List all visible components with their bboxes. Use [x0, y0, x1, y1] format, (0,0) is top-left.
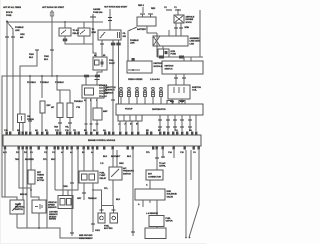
svg-text:PUMP: PUMP	[100, 175, 106, 177]
wire x57 down	[57, 76, 70, 90]
svg-text:FUEL: FUEL	[100, 173, 106, 175]
svg-text:TIMING: TIMING	[37, 175, 44, 177]
svg-text:CONNECTOR: CONNECTOR	[148, 176, 161, 178]
wire B1 drop	[65, 36, 93, 44]
svg-text:BRN: BRN	[185, 27, 190, 29]
wire R1 lower	[59, 118, 61, 132]
wire relay to injectors	[93, 190, 102, 206]
svg-text:BATTERY: BATTERY	[137, 28, 147, 31]
wire box pins	[19, 123, 21, 136]
svg-text:BLK: BLK	[29, 57, 34, 59]
svg-text:C5 = J-K: C5 = J-K	[99, 96, 107, 98]
svg-text:ORN: ORN	[63, 186, 68, 188]
fuse block	[158, 49, 169, 57]
fuse symbol	[51, 10, 53, 22]
wire knock drop	[16, 214, 18, 228]
svg-text:PNK/: PNK/	[29, 54, 34, 56]
wire ecm d1	[19, 150, 31, 188]
wire battery feed	[142, 7, 144, 13]
svg-text:ECM: ECM	[171, 51, 176, 53]
svg-text:PNK/BLK: PNK/BLK	[55, 82, 64, 84]
svg-text:LINK: LINK	[15, 30, 20, 32]
wire module pin a	[159, 115, 161, 131]
svg-text:VALVE: VALVE	[167, 195, 174, 198]
ALDL connector	[153, 36, 188, 46]
ECM engine control module	[3, 135, 201, 146]
tbi feed tab a	[84, 75, 89, 78]
wire tbi pin a	[85, 98, 87, 131]
wire x42 down	[41, 76, 43, 98]
ECM pin tabs bottom	[4, 146, 200, 149]
wire 4pin d	[137, 121, 139, 131]
svg-text:FUEL: FUEL	[109, 60, 115, 62]
wire coil feed a	[175, 74, 177, 85]
wire aldl down	[162, 46, 164, 49]
wire relay feed a	[83, 150, 85, 171]
svg-text:PRESS: PRESS	[27, 119, 34, 121]
wire r1 drop	[59, 90, 61, 103]
wire r2 drop	[69, 90, 71, 103]
svg-text:RELAY: RELAY	[73, 32, 80, 35]
svg-text:IGNITION: IGNITION	[154, 63, 163, 65]
ignition coil	[168, 85, 190, 99]
svg-text:TO A/C: TO A/C	[73, 29, 80, 32]
svg-text:BLK: BLK	[116, 199, 121, 201]
fuel pump relay	[79, 171, 98, 183]
resistor R1	[57, 103, 63, 118]
svg-text:HOT IN RUN OR START: HOT IN RUN OR START	[42, 6, 65, 9]
wire ecm c2	[46, 150, 48, 228]
wire bus2 drops	[183, 57, 185, 61]
wire relay2 feed right	[101, 40, 103, 57]
svg-text:IGNITION: IGNITION	[192, 87, 201, 89]
wire map a	[142, 200, 144, 207]
svg-text:MANIF): MANIF)	[49, 218, 56, 221]
resistor x42	[40, 101, 45, 113]
wire right edge	[199, 10, 201, 57]
svg-text:CNTRL: CNTRL	[159, 165, 167, 167]
svg-text:FUSIBLE: FUSIBLE	[130, 40, 139, 42]
wire x20 jog	[20, 50, 37, 114]
wire lamp to ALDL b	[180, 23, 182, 36]
wire hot-in-run down	[51, 22, 53, 76]
battery terminals	[140, 13, 145, 15]
edge artifact bottom	[0, 243, 206, 244]
svg-text:SERVICE: SERVICE	[186, 17, 195, 19]
wire lamp to ALDL a	[175, 23, 177, 36]
wire sensor drop	[96, 120, 98, 131]
node hot-in-run	[51, 75, 53, 77]
ac switch box	[109, 167, 122, 180]
node B1	[64, 21, 66, 23]
svg-text:LINK: LINK	[190, 43, 195, 45]
wire busL	[2, 76, 99, 200]
svg-text:TAN: TAN	[15, 158, 19, 161]
dist 4pin connector	[118, 115, 142, 121]
node timing	[30, 189, 32, 191]
wire dist feed	[118, 40, 120, 104]
wire 4pin a	[119, 121, 121, 131]
ECM pin tabs top	[6, 132, 198, 135]
svg-text:GRN: GRN	[119, 163, 124, 165]
svg-text:C-D: C-D	[100, 163, 104, 165]
wire R2 lower	[69, 118, 71, 132]
node busL x42	[41, 75, 43, 77]
wire relay ground	[92, 183, 94, 232]
svg-text:BLK/RED: BLK/RED	[25, 159, 34, 161]
wire module pin b	[167, 115, 169, 131]
lamp SERVICE ENGINE SOON	[174, 15, 184, 23]
wire map c	[149, 200, 151, 203]
svg-text:EGR: EGR	[92, 32, 97, 34]
wire to box B1	[64, 22, 66, 28]
spark plug 3	[136, 87, 139, 104]
svg-text:COIL: COIL	[192, 90, 198, 92]
svg-text:FUSIBLE: FUSIBLE	[15, 27, 24, 29]
wire battery to box3	[128, 27, 137, 61]
wire box6 drop	[156, 227, 158, 229]
wire x30 down	[29, 76, 31, 131]
wire module pin c	[174, 115, 176, 131]
wire x72 long	[71, 150, 73, 236]
wire battery out	[147, 26, 157, 33]
wire relay2 out	[97, 70, 102, 79]
node vss	[38, 227, 40, 229]
svg-text:TAN/BLK: TAN/BLK	[88, 197, 97, 200]
wire module pin f	[195, 115, 197, 131]
label pin ids above bar	[4, 129, 192, 132]
svg-text:PNK/BLK: PNK/BLK	[27, 82, 36, 84]
svg-text:PNK/BLK: PNK/BLK	[74, 101, 83, 103]
svg-text:DISTRIBUTOR: DISTRIBUTOR	[152, 109, 166, 111]
svg-text:LINK: LINK	[130, 43, 135, 45]
spark plug 6	[160, 87, 163, 104]
svg-text:GAGES: GAGES	[93, 8, 101, 11]
svg-text:GRY: GRY	[77, 198, 82, 200]
box5 est connector	[146, 170, 163, 180]
relay B1	[59, 28, 71, 36]
wire bus2	[157, 56, 203, 58]
svg-text:SWITCH: SWITCH	[15, 209, 23, 211]
wire starter feed	[156, 33, 158, 57]
junction block box3	[132, 58, 135, 61]
svg-text:FIRING ORDER: FIRING ORDER	[128, 79, 143, 81]
relay2	[93, 57, 107, 70]
TBI unit	[82, 85, 104, 98]
svg-text:SENSOR: SENSOR	[48, 207, 57, 209]
svg-text:MAP: MAP	[103, 110, 108, 113]
svg-text:PUMP: PUMP	[109, 63, 115, 65]
spark plug 4	[144, 87, 147, 104]
svg-text:FUSE: FUSE	[6, 15, 12, 17]
wire ecm mid right	[132, 150, 134, 236]
svg-text:C2 = C-D: C2 = C-D	[99, 88, 108, 90]
svg-text:IGNITION: IGNITION	[165, 66, 174, 68]
wire 4pin c	[131, 121, 133, 131]
wire o2 right jog	[55, 150, 78, 190]
svg-text:C4 = G-H: C4 = G-H	[99, 92, 108, 95]
svg-text:PNK/: PNK/	[44, 56, 49, 58]
wire injector feed	[112, 180, 114, 206]
spark plug 5	[152, 87, 155, 104]
knock sensor box	[10, 200, 24, 214]
resistor R2	[67, 103, 73, 118]
svg-text:RED: RED	[151, 8, 156, 10]
svg-text:RELAY: RELAY	[100, 177, 107, 180]
svg-text:PICKUP: PICKUP	[125, 109, 133, 111]
fuse symbol 2	[92, 14, 94, 44]
wire x42 lower	[41, 113, 43, 131]
wire mid right3	[190, 150, 192, 180]
svg-text:1-2-3-4-5-6: 1-2-3-4-5-6	[150, 78, 161, 81]
wire tbi pin b	[90, 98, 92, 131]
wire mid right short	[162, 150, 164, 158]
svg-text:ECM B: ECM B	[6, 12, 13, 14]
svg-text:EGR: EGR	[167, 191, 172, 193]
wire relay out a	[83, 183, 85, 200]
svg-text:G101 PAGE 8: G101 PAGE 8	[79, 237, 92, 240]
wire B2 feed	[83, 22, 85, 28]
wire ac feed b	[116, 150, 118, 167]
distributor box	[116, 104, 203, 115]
connector tab bus2 a	[159, 56, 164, 59]
oil pressure sender box	[98, 30, 121, 40]
svg-text:SWITCH: SWITCH	[123, 173, 131, 175]
svg-text:VAPOR: VAPOR	[166, 219, 174, 222]
connector tab dist a	[167, 101, 173, 105]
oil pressure switch box	[18, 114, 26, 123]
set timing connector	[28, 170, 35, 184]
wire tbi pin c	[96, 98, 98, 108]
connector tab dist b	[179, 101, 185, 105]
wire relay feed b	[92, 150, 94, 171]
wire fusible link branch	[7, 22, 13, 131]
spark plug 2	[128, 87, 131, 104]
svg-text:A/C: A/C	[123, 167, 127, 170]
wire injector split	[102, 205, 114, 207]
wire bus top	[7, 21, 103, 23]
svg-text:TO: TO	[92, 29, 95, 31]
wire tbi a	[85, 77, 87, 85]
node splice	[6, 21, 8, 23]
wire vss drop	[38, 213, 40, 228]
svg-text:ASSEMBLY: ASSEMBLY	[190, 37, 202, 40]
svg-text:HOT AT ALL TIMES: HOT AT ALL TIMES	[3, 6, 22, 9]
connector tab bus2 b	[179, 56, 184, 59]
wire ecm d2	[22, 150, 24, 200]
svg-text:INJCTRS: INJCTRS	[104, 228, 113, 230]
wire coil out b	[181, 99, 183, 104]
wire B3 feed	[109, 9, 111, 30]
spark plug 1	[120, 87, 123, 104]
wire ecm right a	[173, 150, 175, 158]
edge artifact left	[0, 0, 1, 244]
svg-text:SWITCH: SWITCH	[165, 69, 173, 71]
svg-text:SOON: SOON	[186, 22, 192, 24]
oxygen sensor	[58, 196, 73, 209]
box7	[145, 228, 166, 239]
wire timing drop	[31, 184, 39, 200]
wire long right b	[189, 150, 199, 238]
svg-text:FUSE 10A: FUSE 10A	[93, 11, 103, 14]
wire ecm A12	[4, 150, 6, 197]
wire ac feed	[112, 150, 114, 167]
svg-text:WHT: WHT	[51, 159, 56, 161]
svg-text:LINE DATA: LINE DATA	[190, 40, 201, 43]
injector 2	[110, 213, 118, 223]
sensor box2	[32, 200, 46, 213]
svg-text:C3 = E-F: C3 = E-F	[99, 90, 108, 92]
wire 4pin b	[125, 121, 127, 131]
wire o2 feed	[62, 150, 64, 196]
wire module pin d	[181, 115, 183, 131]
node relay out	[92, 189, 94, 191]
svg-text:RED 2: RED 2	[138, 5, 145, 7]
wire relay2 feed left	[93, 44, 96, 57]
wire B2 drop	[83, 36, 85, 44]
wire box5 feed	[156, 150, 158, 170]
wire tbi b	[96, 77, 98, 85]
wire long right a	[185, 150, 187, 237]
wire ecm b3	[30, 150, 32, 170]
ignition switch box	[162, 61, 203, 74]
wire module pin e	[189, 115, 191, 131]
svg-text:ENGINE CONTROL MODULE: ENGINE CONTROL MODULE	[88, 140, 116, 142]
svg-text:ENGINE: ENGINE	[186, 19, 194, 21]
svg-text:C1 = A-B: C1 = A-B	[99, 84, 108, 87]
svg-text:TAN: TAN	[54, 126, 58, 129]
sensor box below tbi	[93, 108, 102, 120]
svg-text:BRN 31: BRN 31	[20, 194, 28, 196]
node busL x30	[29, 75, 31, 77]
svg-text:SOLENOID: SOLENOID	[167, 194, 178, 196]
relay B2	[78, 28, 90, 36]
wire feed left	[6, 22, 8, 131]
svg-text:HOT IN RUN AND START: HOT IN RUN AND START	[104, 6, 128, 9]
svg-text:BLK: BLK	[44, 59, 49, 61]
wire bottom bus	[17, 228, 93, 238]
svg-text:BLK: BLK	[127, 156, 132, 158]
injector 1	[98, 213, 105, 223]
wire x113	[112, 40, 114, 131]
tbi feed tab b	[95, 75, 100, 78]
svg-text:L-4 SENSOR: L-4 SENSOR	[146, 212, 158, 215]
MAP sensor box	[135, 189, 165, 200]
wire coil feed b	[183, 74, 185, 85]
wire aldl left pin	[168, 30, 170, 36]
svg-text:FUSE: FUSE	[171, 54, 177, 56]
wire lamp feed	[177, 9, 179, 15]
svg-text:CONN: CONN	[37, 177, 43, 179]
wire coil out a	[171, 99, 173, 104]
node busL x57	[56, 75, 58, 77]
wire ecm d3	[26, 150, 28, 228]
svg-text:ORN: ORN	[20, 34, 25, 36]
battery	[137, 17, 156, 26]
svg-text:MODULE: MODULE	[154, 66, 163, 68]
wire ecm c3	[54, 150, 56, 190]
svg-text:CTS: CTS	[76, 107, 81, 109]
svg-text:BLK: BLK	[103, 156, 108, 158]
wire box5 drop	[149, 180, 151, 189]
svg-text:PNK/BLK: PNK/BLK	[40, 82, 49, 84]
wire map b	[156, 200, 158, 216]
connector ticks	[174, 27, 178, 29]
box6	[149, 216, 164, 227]
svg-text:BLK/WHT: BLK/WHT	[111, 156, 121, 158]
svg-text:ECTOR: ECTOR	[37, 180, 45, 182]
